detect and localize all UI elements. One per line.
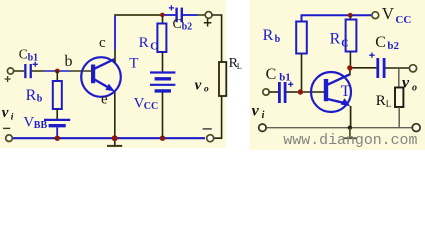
transistor T (left) circle	[81, 57, 121, 97]
svg-text:V: V	[23, 115, 34, 131]
transistor T (right) collector stroke	[328, 75, 350, 85]
right figure background	[250, 0, 425, 150]
transistor T (right) emitter arrowhead	[341, 98, 351, 106]
capacitor Cb1 (right) right plate	[284, 82, 287, 103]
svg-text:b: b	[37, 94, 43, 105]
battery VBB short plate	[49, 124, 66, 127]
battery VBB long plate	[44, 119, 70, 121]
svg-text:BB: BB	[34, 120, 48, 131]
transistor T (left) base bar	[91, 65, 95, 84]
resistor Rb (left)	[53, 81, 62, 109]
wire terminal to RL corner	[212, 15, 222, 62]
transistor T (left) collector stroke	[95, 59, 115, 68]
input terminal (right)	[263, 89, 269, 95]
plus mark Cb1 (right)	[288, 82, 293, 87]
emitter wire down to ground	[114, 92, 116, 146]
collector wire dark lower part	[114, 50, 116, 63]
svg-text:b: b	[65, 53, 73, 70]
svg-text:b1: b1	[279, 72, 291, 84]
battery VCC short plate 2	[155, 89, 171, 92]
transistor T (left) emitter arrowhead	[105, 84, 115, 92]
svg-text:i: i	[262, 110, 265, 121]
svg-text:T: T	[129, 56, 138, 72]
plus mark output	[204, 19, 212, 27]
output terminal (right, bottom)	[412, 124, 420, 132]
wire node segment (blue)	[44, 70, 71, 72]
svg-text:v: v	[195, 78, 202, 94]
wire VCC battery to bottom rail	[162, 93, 164, 138]
emitter wire down (right)	[350, 106, 352, 128]
transistor T (right) circle	[311, 72, 351, 112]
svg-text:i: i	[11, 113, 14, 123]
top rail (left circuit)	[114, 14, 160, 16]
junction dot base node	[55, 69, 60, 74]
svg-text:C: C	[173, 16, 182, 31]
wire RC down to collector node	[349, 52, 351, 66]
junction dot emitter/rail	[112, 135, 118, 141]
svg-text:b: b	[275, 34, 281, 45]
transistor T (right) base bar	[324, 79, 328, 101]
transistor T (right) emitter stroke	[328, 99, 344, 103]
minus mark above bottom-left terminal	[3, 127, 10, 129]
svg-text:C: C	[341, 39, 348, 50]
svg-text:R: R	[26, 87, 37, 104]
svg-text:CC: CC	[395, 14, 411, 26]
battery VCC long plate 1	[150, 71, 175, 73]
minus mark above bottom-right terminal	[203, 128, 212, 130]
collector wire blue upper part	[114, 16, 116, 50]
ground bar (right)	[343, 137, 357, 139]
svg-text:c: c	[99, 35, 106, 51]
ground stem (right)	[349, 128, 351, 138]
junction dot VBB/rail	[55, 136, 60, 141]
plus mark under input terminal	[5, 76, 11, 82]
plus mark Cb2 (right)	[369, 53, 374, 58]
junction dot top rail right	[348, 13, 353, 18]
wire node down to Rb	[56, 71, 58, 81]
wire Cb2 to output terminal (right)	[386, 67, 410, 69]
capacitor Cb1 (right) left plate	[278, 82, 281, 103]
svg-text:b2: b2	[182, 22, 193, 33]
input terminal (left, top)	[7, 68, 13, 74]
capacitor Cb2 (right) left plate	[376, 58, 379, 78]
battery VCC long plate 2	[150, 84, 175, 86]
svg-text:v: v	[252, 103, 260, 120]
junction dot base node (right)	[298, 89, 303, 94]
svg-text:V: V	[382, 4, 395, 23]
output terminal (left, bottom)	[207, 135, 214, 142]
collector wire (right)	[349, 68, 351, 76]
capacitor Cb1 (left plate)	[24, 64, 26, 78]
resistor RL (right)	[395, 88, 403, 108]
svg-text:C: C	[375, 34, 386, 51]
input terminal (right, bottom)	[259, 124, 266, 131]
junction dot top rail	[160, 13, 165, 18]
svg-text:R: R	[376, 93, 386, 109]
input terminal (left, bottom)	[6, 135, 13, 142]
wire down to RL (right)	[398, 68, 400, 88]
wire Rb down to base node	[301, 54, 303, 93]
output terminal (left, top)	[205, 12, 212, 19]
battery VCC short plate 1	[155, 77, 171, 80]
svg-text:C: C	[266, 66, 277, 83]
svg-text:L: L	[237, 61, 242, 71]
wire Cb2 to output terminal (blue)	[183, 14, 198, 16]
output terminal (right, top)	[409, 65, 416, 72]
wire node to base bar	[71, 70, 92, 72]
wire RC to VCC battery	[162, 52, 164, 72]
wire junction to base bar	[303, 91, 324, 93]
left figure background	[0, 0, 226, 148]
wire dark before terminal	[198, 14, 206, 16]
capacitor Cb1 (right plate)	[30, 64, 32, 78]
wire top junction to RC	[162, 16, 164, 24]
resistor Rb (right)	[296, 22, 307, 54]
svg-text:b2: b2	[387, 40, 399, 52]
svg-text:L: L	[386, 99, 392, 109]
ground bar (left)	[107, 145, 122, 147]
svg-text:o: o	[412, 82, 417, 93]
resistor RC (left)	[157, 24, 166, 53]
wire VBB to bottom rail	[56, 127, 58, 137]
wire collector node to Cb2 (right)	[353, 67, 377, 69]
junction dot VCC/rail	[160, 136, 165, 141]
top rail (right circuit)	[302, 15, 372, 21]
wire Cb1 to base junction	[287, 91, 298, 93]
wire RL to bottom rail (right)	[398, 107, 400, 128]
resistor RL (left)	[219, 62, 226, 96]
capacitor Cb2 (right) right plate	[383, 58, 386, 78]
wire Rb to VBB	[56, 109, 58, 119]
svg-text:T: T	[341, 83, 351, 100]
VCC terminal (right)	[372, 12, 379, 19]
bottom rail (left circuit)	[12, 137, 205, 139]
svg-text:C: C	[19, 47, 28, 62]
resistor RC (right)	[346, 20, 357, 52]
svg-text:R: R	[330, 31, 341, 48]
svg-text:R: R	[139, 35, 149, 51]
wire rail to RC (right)	[349, 16, 351, 19]
wire input to Cb1 (right)	[269, 91, 278, 93]
wire Cb1 to node (dark segment)	[32, 70, 44, 72]
plus mark at Cb2	[169, 5, 174, 10]
junction dot emitter/rail (right)	[348, 126, 352, 130]
svg-text:CC: CC	[144, 101, 158, 112]
wire input terminal to Cb1	[14, 70, 24, 72]
svg-text:e: e	[101, 92, 108, 108]
bottom rail (right circuit)	[266, 127, 412, 129]
svg-text:v: v	[2, 105, 9, 121]
svg-text:C: C	[150, 42, 157, 53]
svg-text:www.diangon.com: www.diangon.com	[283, 133, 417, 149]
svg-text:b1: b1	[28, 53, 39, 64]
junction dot collector node (right)	[347, 65, 352, 70]
wire RL to bottom terminal	[214, 96, 222, 138]
transistor T (left) emitter stroke	[95, 80, 109, 88]
capacitor Cb2 left plate	[175, 8, 177, 23]
wire junction to Cb2 (blue)	[165, 14, 176, 16]
capacitor Cb2 right plate	[181, 8, 183, 23]
svg-text:o: o	[204, 85, 209, 95]
svg-text:R: R	[263, 27, 274, 44]
plus mark at Cb1 right plate	[33, 62, 38, 67]
